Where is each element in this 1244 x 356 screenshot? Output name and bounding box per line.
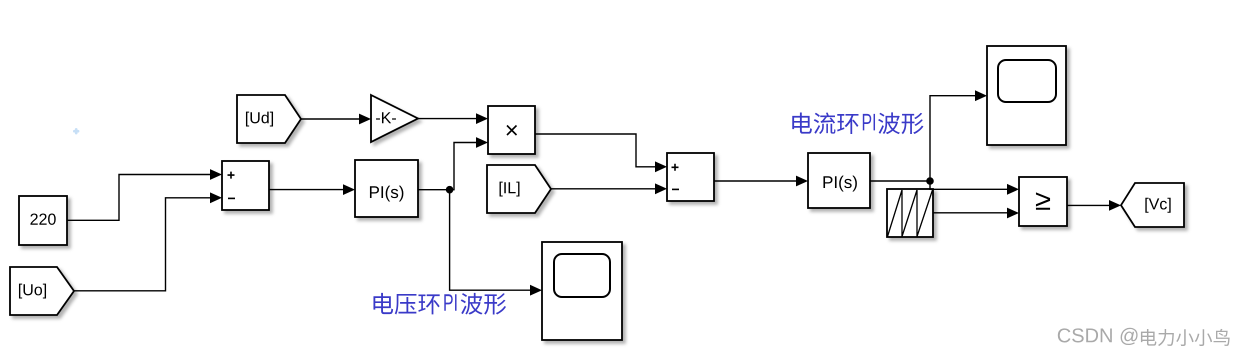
wire sawtooth to relational op input 2 [933, 208, 1019, 219]
scope voltage loop [542, 242, 622, 340]
from tag [IL] [487, 165, 551, 213]
wire [IL] to Sum2 minus input [551, 183, 667, 194]
junction node after PI(s) voltage [446, 186, 454, 194]
wire branch from junction down to relational op input 1 [930, 181, 1019, 195]
product block x [488, 106, 535, 154]
wire branch from junction up to current scope [930, 90, 987, 181]
relational operator >= block [1019, 177, 1067, 226]
goto tag [Vc] [1121, 183, 1184, 227]
scope current loop [987, 46, 1066, 145]
from tag [Ud] [237, 95, 301, 143]
wire gain to product input 1 [418, 113, 488, 124]
sum block Sum2 [667, 153, 714, 201]
wire [Uo] to Sum1 minus input [74, 192, 222, 290]
sum block Sum1 [222, 161, 269, 210]
wire Sum2 to PI(s) current [714, 176, 808, 187]
wire [Ud] to gain [301, 114, 371, 125]
repeating sequence sawtooth block [887, 189, 933, 237]
cursor marker dot [74, 129, 78, 133]
wire PI(s) current to junction [870, 180, 930, 182]
wire 220 to Sum1 plus input [67, 169, 222, 220]
watermark CSDN [1058, 328, 1230, 346]
goto tag [Uo] [10, 267, 74, 315]
wire PI(s) to product input 2 [418, 137, 488, 190]
gain block -K- [371, 95, 418, 142]
wire Sum1 to PI(s) [269, 184, 355, 195]
constant block 220 [19, 196, 67, 245]
annotation current loop PI waveform [792, 112, 923, 134]
annotation voltage loop PI waveform [373, 293, 506, 315]
wire branch from junction down to voltage scope [450, 190, 542, 296]
wire product to Sum2 plus input [535, 134, 667, 172]
transfer fcn PI(s) current loop [808, 153, 870, 208]
wire relational op to [Vc] [1067, 200, 1121, 211]
transfer fcn PI(s) voltage loop [355, 160, 418, 217]
junction node after PI(s) current [926, 177, 934, 185]
